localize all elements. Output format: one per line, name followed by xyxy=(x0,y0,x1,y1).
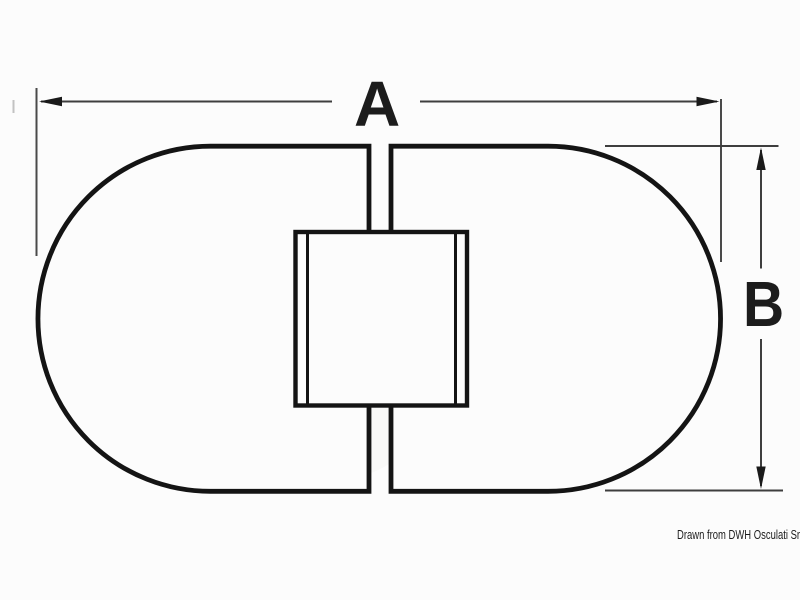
dim A: left extension line xyxy=(36,88,38,256)
hinge right leaf xyxy=(391,146,721,491)
pin block inner line left xyxy=(306,233,309,406)
dim A: line right segment xyxy=(420,101,717,103)
dim A: right arrowhead xyxy=(697,97,720,106)
pin block inner line right xyxy=(454,233,457,406)
dim B: top arrowhead xyxy=(756,148,765,171)
hinge left leaf xyxy=(38,146,369,491)
faint scan tick top-left xyxy=(13,100,15,113)
dim A: left arrowhead xyxy=(39,97,62,106)
dim B: bottom extension line xyxy=(605,490,783,492)
caption: Drawn from DWH Osculati Srl xyxy=(677,528,800,542)
dim B: bottom arrowhead xyxy=(756,467,765,490)
dim A: right extension line xyxy=(720,99,722,262)
dim A: line left segment xyxy=(41,101,332,103)
hinge pin block (outer) xyxy=(296,232,468,406)
label B xyxy=(743,272,784,336)
dim B: top extension line xyxy=(605,145,779,147)
label A xyxy=(354,72,400,136)
scan background blotches xyxy=(110,145,700,480)
dim B: line lower segment xyxy=(760,339,762,486)
dim B: line upper segment xyxy=(760,150,762,269)
